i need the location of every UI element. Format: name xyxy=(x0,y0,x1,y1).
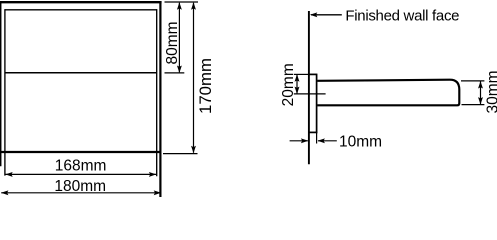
front view middle seam line at 80mm xyxy=(5,72,157,74)
svg-text:170mm: 170mm xyxy=(196,58,215,114)
extension lines spout end for 30mm xyxy=(461,81,484,105)
plate right edge extension for 10mm xyxy=(316,133,318,144)
dimension line 10mm left segment xyxy=(290,138,309,143)
svg-text:10mm: 10mm xyxy=(339,134,382,151)
svg-text:80mm: 80mm xyxy=(164,21,181,64)
side view wall plate outline (10mm bar) xyxy=(308,74,317,134)
svg-text:20mm: 20mm xyxy=(280,63,297,106)
svg-text:180mm: 180mm xyxy=(54,178,106,195)
extension line top right xyxy=(165,1,199,3)
dimension line 30mm xyxy=(478,81,483,104)
svg-text:Finished wall face: Finished wall face xyxy=(345,8,459,25)
front view inner opening (168mm) xyxy=(5,9,157,176)
dimension line 10mm right segment xyxy=(318,138,337,143)
svg-text:30mm: 30mm xyxy=(484,70,497,113)
dimension line 80mm xyxy=(177,2,182,73)
side view spout body xyxy=(317,80,459,106)
extension line bottom right for 170mm xyxy=(163,153,198,155)
extension line plate top for 20mm xyxy=(294,73,309,75)
dimension line 20mm xyxy=(295,74,300,94)
dimension line 170mm xyxy=(191,2,196,153)
side view wall face line xyxy=(308,11,310,164)
leader arrow to wall face xyxy=(310,12,342,17)
svg-text:168mm: 168mm xyxy=(55,157,107,174)
front view outer square (180mm plate outline) xyxy=(0,1,162,197)
extension line at seam for 80mm xyxy=(165,72,185,74)
dimension line 180mm xyxy=(1,190,161,195)
dimension line 168mm xyxy=(5,172,156,177)
spout inner reference line (20mm) xyxy=(294,93,326,95)
